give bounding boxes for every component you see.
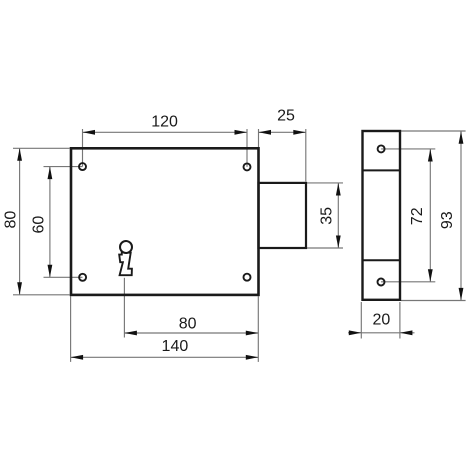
svg-text:80: 80 [2, 211, 19, 229]
svg-text:140: 140 [162, 338, 189, 355]
svg-text:72: 72 [409, 207, 426, 225]
svg-text:60: 60 [30, 216, 47, 234]
svg-text:93: 93 [439, 211, 456, 229]
svg-text:20: 20 [373, 312, 391, 329]
svg-text:35: 35 [318, 207, 335, 225]
svg-text:80: 80 [179, 316, 197, 333]
svg-text:120: 120 [151, 114, 178, 131]
svg-text:25: 25 [277, 108, 295, 125]
